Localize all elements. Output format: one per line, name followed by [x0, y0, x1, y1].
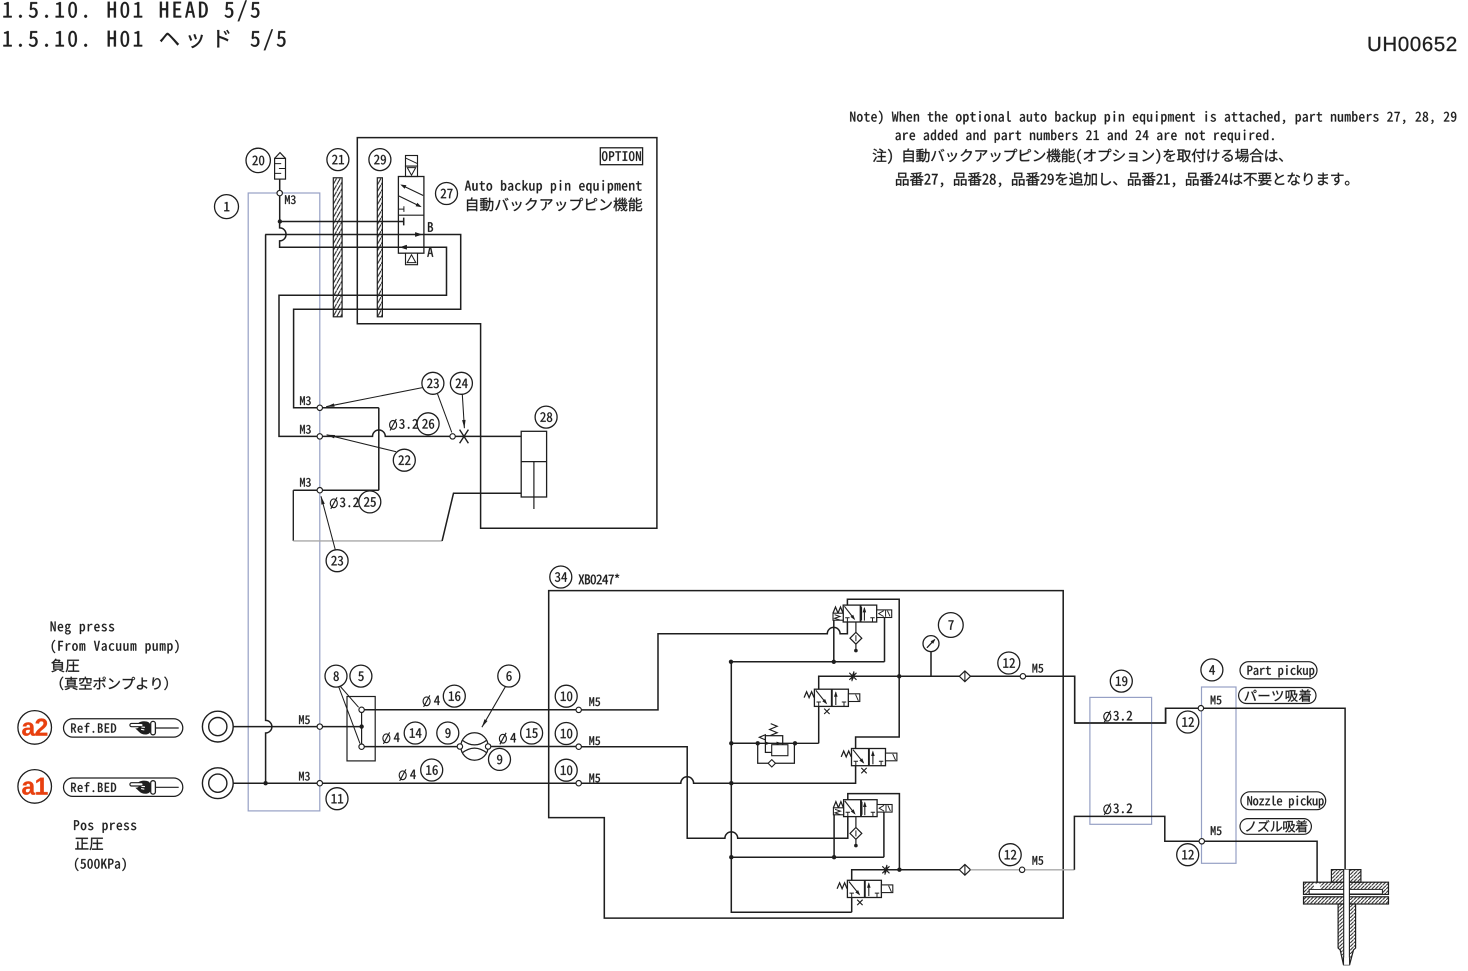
wire shuttle line to valve 3 feed	[364, 747, 848, 839]
balloon 10 mid	[555, 723, 577, 745]
text Neg press	[51, 622, 115, 635]
text 正圧	[75, 838, 103, 850]
valve 3 spring vent wire	[833, 814, 835, 857]
wire B-line from left riser through valve to port 1	[265, 235, 461, 408]
left riser wire (M3 positive) with hop over a2 line	[266, 235, 272, 784]
regulator junction dots	[756, 741, 798, 745]
label phi4 (15)	[499, 733, 516, 745]
port 10 mid	[576, 744, 581, 749]
balloon 34	[550, 566, 572, 588]
blue boundary box (item 1)	[248, 193, 320, 811]
blue tube box 19	[1090, 697, 1152, 824]
wire rail to valve 2b	[856, 676, 900, 748]
arrow B port overlay	[415, 232, 422, 237]
junction dots pilot rail 1	[729, 660, 836, 664]
text Pos press	[74, 820, 136, 833]
balloon 14	[404, 722, 426, 744]
balloon 5	[350, 665, 372, 687]
valve 1 solenoid pilot wire	[884, 618, 886, 662]
balloon 29	[369, 149, 391, 171]
balloon 16 top	[443, 685, 465, 707]
muffler/filter 20 symbol	[275, 153, 286, 179]
valve 4 bottom wire	[851, 898, 853, 913]
port 12 lower	[1019, 867, 1024, 872]
title line 2 "1.5.10. H01 ヘッド 5/5"	[3, 29, 285, 50]
arrow A port overlay	[400, 245, 407, 250]
label M5 (a2)	[299, 715, 310, 724]
valve 1 exhaust filter diamond	[850, 622, 862, 652]
nozzle holder (hatched section)	[1304, 870, 1389, 965]
valve 3 exhaust filter diamond	[850, 817, 862, 848]
label M5 12-lower	[1033, 856, 1044, 865]
valve 1 spring vent wire	[833, 620, 835, 662]
red circle a2	[18, 711, 52, 745]
note text line 1 (English)	[850, 111, 1456, 125]
label M5 10-top	[589, 697, 600, 706]
label phi4 (14)	[383, 732, 400, 744]
wire a2 (M5 vacuum) to manifold block	[233, 726, 359, 728]
balloon 26	[417, 413, 439, 435]
balloon 23b	[326, 550, 348, 572]
wire lower output to nozzle-pickup port	[1074, 816, 1199, 869]
gray wire after lower check valve	[971, 869, 1075, 871]
note text line 4 (Japanese)	[896, 172, 1349, 187]
shuttle port left	[457, 744, 462, 749]
port 12 upper	[1020, 674, 1025, 679]
capsule パーツ吸着	[1239, 688, 1316, 704]
plug X symbol 24	[460, 430, 469, 444]
pilot rail valve 1	[731, 661, 885, 663]
document number UH00652	[1369, 37, 1457, 52]
balloon 12 lower-left	[999, 844, 1021, 866]
balloon 9 left	[437, 722, 459, 744]
gray wire lower-left of option area	[293, 490, 521, 541]
label B	[428, 222, 433, 232]
balloon 9 right	[489, 748, 511, 770]
wire supply to regulator	[731, 742, 757, 744]
leader 8 to bottom fitting	[339, 687, 360, 744]
capsule ノズル吸着	[1240, 819, 1311, 835]
wire vacuum top line to valve 1 feed	[364, 622, 847, 710]
leader 8 to top fitting	[341, 687, 359, 708]
wire port1 to down-leg	[323, 408, 379, 490]
fitting port bottom (8)	[359, 744, 364, 749]
wire filter port to pilot junction	[279, 196, 281, 222]
junction dot a1/riser	[263, 781, 267, 785]
wire part-pickup to nozzle center	[1204, 708, 1346, 870]
wire nozzle-pickup to nozzle flange	[1205, 841, 1318, 882]
red circle a1	[18, 770, 52, 804]
balloon 15	[521, 722, 543, 744]
throttle on upper rail	[849, 671, 856, 681]
wire port3 legs	[293, 489, 379, 491]
junction dot valve1 loop	[897, 674, 901, 678]
label M5 10-mid	[589, 736, 600, 745]
valve 2 bottom wire to regulator	[818, 706, 820, 743]
port 10 bottom	[576, 781, 581, 786]
Ref.BED capsule a1	[64, 778, 183, 796]
OPTION label box	[600, 148, 642, 165]
junction dot pilot line	[278, 219, 282, 223]
inner tee of block 5	[361, 712, 363, 744]
label phi3.2 (25)	[330, 497, 358, 509]
label "Auto backup pin equipment"	[465, 180, 642, 193]
regulator bypass with check	[758, 743, 795, 767]
port a1 (double circle)	[202, 768, 233, 799]
balloon 27	[436, 183, 458, 205]
label M5 12-upper	[1033, 664, 1044, 673]
port M5 on blue box (a2)	[317, 724, 322, 729]
balloon 7	[938, 613, 963, 638]
wire upper output to part-pickup port	[1026, 676, 1199, 723]
balloon 16 a1	[421, 759, 443, 781]
capsule Nozzle pickup	[1241, 792, 1326, 810]
port 12 right-upper	[1198, 706, 1203, 711]
solenoid valve 27 (vertical)	[398, 156, 424, 265]
balloon 25	[359, 491, 381, 513]
valve 3 solenoid pilot wire	[883, 813, 885, 858]
leader 24 to plug	[462, 394, 466, 428]
label M5 10-bottom	[589, 774, 600, 783]
label M3 #1	[300, 396, 311, 405]
label M3 (a1)	[299, 772, 310, 781]
balloon 21	[327, 149, 349, 171]
port before plug	[450, 434, 455, 439]
solenoid valve 4 (bottom)	[837, 880, 893, 905]
pressure regulator	[758, 724, 819, 756]
pilot valve 3 (lower, vacuum)	[833, 800, 892, 817]
balloon 19	[1110, 670, 1132, 692]
balloon 20	[246, 148, 270, 172]
lower output rail	[852, 870, 960, 881]
balloon 10 top	[555, 685, 577, 707]
pilot wire to valve 27 with end bar	[282, 218, 404, 226]
leader 23 to port 1	[326, 388, 423, 407]
pilot valve 1 (top, vacuum)	[833, 605, 892, 622]
port 12 right-lower	[1199, 839, 1204, 844]
balloon 10 bottom	[555, 759, 577, 781]
port M3 #1	[317, 405, 322, 410]
label phi3.2 upper	[1104, 711, 1132, 723]
shuttle port right	[485, 744, 490, 749]
label M5 right-lower	[1211, 826, 1222, 835]
port a2 (double circle)	[202, 711, 233, 742]
junction dot valve3 loop	[897, 868, 901, 872]
OPTION boundary box	[357, 138, 657, 529]
wire from filter 20 to port	[279, 179, 281, 190]
leader 22 to port 2	[327, 435, 397, 452]
port 10 top	[576, 707, 581, 712]
label XB0247*	[579, 574, 620, 585]
wire filter-to-A-line with hop over B-line	[279, 224, 447, 437]
port M3 #3	[317, 488, 322, 493]
Ref.BED capsule a2	[64, 719, 183, 737]
port M3 #2	[317, 434, 322, 439]
label phi4 (16) top	[423, 695, 440, 707]
supply riser x=731	[729, 662, 852, 912]
label phi3.2 (26)	[390, 419, 418, 431]
balloon 24	[450, 372, 472, 394]
fitting block 5 (rect)	[347, 697, 375, 761]
label M3 #3	[300, 478, 311, 487]
wire a1 (M3 pressure) long line with hop, to valve 2b	[233, 766, 855, 784]
label A	[427, 247, 433, 257]
check valve diamond lower	[959, 864, 970, 875]
wire port2 to cylinder with hop and plug X	[323, 430, 522, 436]
upper output rail	[819, 676, 1198, 723]
label phi3.2 lower	[1104, 803, 1132, 815]
arrow B port (flow right)	[415, 232, 422, 237]
balloon 8	[325, 665, 347, 687]
text (From Vacuum pump)	[52, 640, 179, 654]
manifold assembly box 34 outline	[549, 591, 1063, 919]
cylinder 28	[521, 431, 546, 509]
balloon 1	[215, 195, 239, 219]
check valve diamond upper	[959, 671, 970, 682]
port M3 on blue box (a1)	[317, 781, 322, 786]
valve 1 output loop	[847, 599, 899, 676]
junction dot a2 at block	[359, 724, 363, 728]
arrow A port (flow left)	[400, 245, 407, 250]
text 負圧	[51, 659, 79, 672]
note text line 2 (English)	[896, 130, 1274, 143]
balloon 12 upper-left	[998, 652, 1020, 674]
blue tube box 4	[1202, 687, 1237, 863]
balloon 4	[1201, 659, 1223, 681]
bulkhead bar 29 (hatched)	[377, 178, 382, 317]
balloon 23	[422, 372, 444, 394]
bulkhead bar 21 (hatched)	[333, 178, 342, 317]
label M3 #2	[300, 425, 311, 434]
fitting port top (8)	[359, 707, 364, 712]
text （真空ポンプより）	[60, 677, 168, 691]
balloon 11	[326, 788, 348, 810]
label M5 right-upper	[1211, 696, 1222, 705]
capsule Part pickup	[1240, 662, 1317, 679]
label "自動バックアップピン機能"	[467, 198, 642, 212]
label M3 (filter port)	[285, 195, 296, 204]
port M3 under filter 20	[277, 190, 282, 195]
note text line 3 (Japanese)	[873, 149, 1283, 164]
balloon 12 right-lower	[1177, 844, 1199, 866]
balloon 6	[498, 665, 520, 687]
solenoid valve 2b (middle right)	[841, 749, 897, 774]
throttle on lower rail	[882, 865, 889, 875]
pressure gauge 7	[923, 636, 939, 677]
label phi4 (16) a1 line	[399, 769, 416, 781]
balloon 22	[393, 449, 415, 471]
title line 1 "1.5.10. H01 HEAD 5/5"	[3, 0, 259, 21]
leader 23 to port before plug	[438, 394, 452, 433]
balloon 12 right-upper	[1177, 711, 1199, 733]
solenoid valve 2	[804, 689, 860, 714]
valve 3 output loop	[848, 794, 900, 870]
text (500KPa)	[75, 858, 126, 871]
leader 23b to port 3	[321, 496, 335, 550]
shuttle valve 9 (circle with arcs)	[461, 733, 488, 760]
balloon 28	[535, 406, 557, 428]
pilot rail valve 3	[731, 855, 884, 859]
leader 6 to shuttle	[482, 687, 505, 727]
